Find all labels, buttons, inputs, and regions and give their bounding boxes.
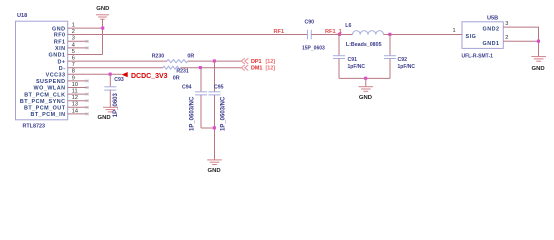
off-page connector DM1	[241, 65, 275, 72]
svg-text:RTL8723: RTL8723	[23, 123, 45, 129]
pin 7 D- stub	[68, 67, 164, 69]
pin 12 stub	[68, 100, 89, 102]
pin 14 stub	[68, 113, 89, 115]
ground (below C93)	[98, 107, 118, 121]
svg-text:[12]: [12]	[266, 59, 276, 65]
svg-text:GND: GND	[96, 6, 109, 12]
power port DCDC_3V3	[122, 72, 168, 80]
pin 9 stub	[68, 80, 89, 82]
svg-text:D-: D-	[59, 66, 66, 72]
pin 11 stub	[68, 93, 89, 95]
svg-text:1: 1	[453, 28, 456, 34]
wire C90 to C91 junction	[311, 34, 339, 36]
pin 1 GND stub	[68, 27, 103, 29]
chip U18 body	[16, 21, 68, 120]
junction node U5B gnd	[537, 40, 540, 43]
svg-text:C90: C90	[305, 19, 315, 25]
svg-text:L:Beads_0805: L:Beads_0805	[346, 42, 382, 48]
svg-text:15P_0603: 15P_0603	[302, 45, 325, 51]
pin stubs U18	[68, 28, 308, 114]
ground (below C94/C95)	[207, 160, 222, 174]
junction node pin1/GND	[101, 27, 104, 30]
capacitor C91	[333, 35, 365, 79]
svg-text:BT_PCM_CLK: BT_PCM_CLK	[24, 92, 65, 98]
resistor R231	[163, 66, 189, 81]
capacitor C93	[104, 74, 124, 117]
junction node D-/C94	[199, 66, 202, 69]
svg-text:C91: C91	[348, 57, 358, 63]
svg-text:2: 2	[505, 35, 508, 41]
svg-text:SIG: SIG	[466, 34, 477, 40]
svg-text:GND: GND	[208, 168, 221, 174]
pin 5 GND1 stub	[68, 54, 103, 56]
ground (top, above U18)	[96, 6, 109, 19]
svg-text:GND: GND	[98, 115, 111, 121]
svg-text:1pF/NC: 1pF/NC	[348, 64, 366, 70]
svg-text:1P_0603/NC: 1P_0603/NC	[189, 96, 195, 131]
svg-text:GND2: GND2	[483, 27, 500, 33]
svg-text:U5B: U5B	[487, 16, 498, 22]
svg-text:0R: 0R	[187, 53, 194, 59]
wire C91/C92 bottoms	[339, 77, 390, 79]
pin 3 RF1 stub	[68, 40, 89, 42]
junction node GND mid	[364, 77, 367, 80]
junction node D+/C95	[213, 59, 216, 62]
pin 6 D+ stub	[68, 60, 168, 62]
svg-text:DM1: DM1	[251, 66, 262, 72]
svg-text:C94: C94	[182, 85, 192, 91]
svg-text:1pF/NC: 1pF/NC	[398, 64, 416, 70]
svg-text:C93: C93	[114, 77, 124, 83]
pin 10 stub	[68, 87, 89, 89]
svg-text:3: 3	[505, 21, 508, 27]
wire L6 to U5B	[384, 34, 454, 36]
svg-text:BT_PCM_OUT: BT_PCM_OUT	[24, 106, 66, 112]
ground (right of U5B)	[531, 57, 546, 73]
pin 8 VCC33 stub	[68, 73, 122, 75]
pin 3 stub U5B	[503, 26, 513, 28]
capacitor C90 (series)	[302, 19, 325, 51]
svg-text:RF1: RF1	[54, 40, 66, 46]
svg-text:R230: R230	[152, 53, 165, 59]
svg-text:GND1: GND1	[483, 41, 500, 47]
capacitor C94	[182, 68, 207, 131]
inductor L6	[339, 23, 384, 48]
svg-text:8: 8	[72, 69, 75, 75]
junction node C94/C95	[213, 126, 216, 129]
off-page connector DP1	[241, 58, 275, 65]
pin 2 RF0 stub / wire net RF1	[68, 34, 308, 36]
svg-text:U18: U18	[17, 13, 27, 19]
svg-text:XIN: XIN	[55, 46, 66, 52]
svg-text:1P_0603/NC: 1P_0603/NC	[220, 96, 226, 131]
capacitor C95	[209, 61, 227, 160]
pin names U18	[20, 26, 66, 118]
svg-text:DCDC_3V3: DCDC_3V3	[131, 73, 168, 80]
wire GND stem to pin1	[102, 19, 104, 28]
wire C94 bottom to C95	[201, 127, 215, 129]
svg-text:4: 4	[72, 42, 75, 48]
wire pin2 to gnd corner	[513, 41, 539, 56]
svg-text:DP1: DP1	[251, 59, 262, 65]
wire D+ after R230	[188, 60, 241, 62]
svg-text:1P_0603: 1P_0603	[113, 93, 119, 118]
pin 2 stub U5B	[503, 40, 513, 42]
junction node VCC33/C93	[109, 73, 112, 76]
svg-text:SUSPEND: SUSPEND	[36, 79, 66, 85]
svg-text:GND1: GND1	[49, 53, 66, 59]
svg-text:C95: C95	[214, 85, 224, 91]
junction node C92	[388, 33, 391, 36]
svg-text:WO_WLAN: WO_WLAN	[34, 86, 66, 92]
svg-text:RF1: RF1	[274, 29, 285, 35]
wire GND stem	[365, 78, 367, 86]
svg-text:L6: L6	[345, 23, 351, 29]
pin 1 stub U5B	[454, 34, 463, 36]
resistor R230	[152, 53, 195, 62]
svg-text:VCC33: VCC33	[46, 73, 66, 79]
svg-text:0R: 0R	[173, 75, 180, 81]
svg-text:BT_PCM_SYNC: BT_PCM_SYNC	[20, 99, 66, 105]
svg-text:UFL-R-SMT-1: UFL-R-SMT-1	[462, 54, 494, 60]
pin numbers U18	[72, 23, 78, 115]
pin 13 stub	[68, 106, 89, 108]
svg-text:[12]: [12]	[266, 66, 276, 72]
svg-text:GND: GND	[359, 95, 372, 101]
svg-text:D+: D+	[57, 59, 65, 65]
svg-text:BT_PCM_IN: BT_PCM_IN	[30, 112, 65, 118]
svg-text:GND: GND	[52, 26, 65, 32]
svg-text:RF0: RF0	[54, 33, 66, 39]
svg-text:R231: R231	[176, 69, 189, 75]
svg-text:13: 13	[72, 102, 78, 108]
ground (below L6 filter)	[359, 87, 374, 102]
pin 4 XIN stub	[68, 47, 89, 49]
no-connect X marks	[86, 40, 89, 115]
junction node RF1_1/C91	[338, 33, 341, 36]
wire pin1 to pin5 vertical	[102, 28, 104, 54]
wire D- after R231	[181, 67, 242, 69]
wire pin3 to gnd corner	[513, 27, 539, 41]
svg-text:GND: GND	[532, 66, 545, 72]
connector U5B body	[462, 22, 503, 49]
capacitor C92	[384, 35, 415, 79]
svg-text:C92: C92	[398, 57, 408, 63]
